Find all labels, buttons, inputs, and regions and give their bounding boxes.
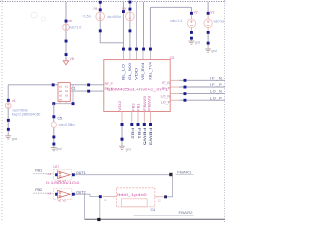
svg-text:FBW3: FBW3 (148, 96, 152, 111)
svg-text:vdc=1.4: vdc=1.4 (170, 19, 182, 23)
svg-text:V3: V3 (210, 11, 214, 15)
svg-text:C1: C1 (71, 86, 75, 90)
svg-text:IF_N: IF_N (162, 81, 170, 85)
svg-text:GL_MXi: GL_MXi (128, 63, 132, 80)
svg-text:FBW5: FBW5 (143, 128, 148, 147)
svg-text:fbb0_1p4n0: fbb0_1p4n0 (117, 193, 147, 197)
svg-text:0.1/500u/1G4: 0.1/500u/1G4 (46, 181, 79, 185)
svg-text:=1.5n: =1.5n (82, 15, 91, 19)
svg-text:FBW3: FBW3 (149, 128, 154, 147)
svg-text:n1: n1 (12, 99, 16, 103)
svg-text:IF_P: IF_P (162, 86, 170, 90)
svg-text:na: na (94, 7, 98, 11)
svg-text:FBAR1: FBAR1 (177, 171, 191, 175)
svg-text:vdc=1.0: vdc=1.0 (69, 25, 81, 29)
svg-text:LO_N: LO_N (161, 95, 171, 99)
svg-text:na: na (122, 7, 126, 11)
svg-text:FB1: FB1 (137, 103, 141, 111)
svg-text:IF_N: IF_N (210, 76, 222, 80)
svg-text:LO_P: LO_P (161, 101, 171, 105)
svg-text:gnd: gnd (56, 147, 62, 151)
svg-text:b2: b2 (65, 89, 69, 93)
svg-text:VDD: VDD (135, 67, 139, 80)
svg-text:U27: U27 (53, 165, 59, 169)
svg-text:FB1: FB1 (35, 168, 42, 172)
svg-text:FB2: FB2 (35, 188, 42, 192)
svg-text:freq=2.2856334G50: freq=2.2856334G50 (12, 112, 41, 116)
svg-text:vdc=xx: vdc=xx (214, 20, 225, 24)
svg-text:gnd: gnd (126, 147, 132, 151)
svg-text:a1: a1 (59, 85, 63, 89)
svg-text:VB: VB (70, 57, 75, 61)
svg-text:b1: b1 (65, 85, 69, 89)
svg-text:FBAR2: FBAR2 (179, 211, 193, 215)
svg-text:in1: in1 (47, 172, 51, 176)
svg-text:FBW5: FBW5 (143, 96, 147, 111)
svg-text:gnd: gnd (12, 137, 18, 141)
svg-text:in2: in2 (47, 192, 51, 196)
svg-text:IF_P: IF_P (210, 83, 222, 87)
svg-text:VB_BVd: VB_BVd (141, 63, 145, 80)
svg-text:LO_N: LO_N (210, 90, 222, 94)
svg-text:gnd: gnd (212, 49, 218, 53)
svg-text:V2: V2 (194, 11, 198, 15)
svg-text:C5: C5 (58, 117, 62, 121)
svg-text:VD2: VD2 (118, 101, 122, 111)
svg-text:vdc=0.98hv: vdc=0.98hv (59, 123, 76, 127)
svg-text:a4: a4 (59, 98, 63, 102)
svg-text:RF_P: RF_P (105, 82, 113, 86)
svg-text:121: 121 (169, 56, 175, 60)
svg-text:a2: a2 (59, 89, 63, 93)
svg-text:FB2: FB2 (132, 103, 136, 111)
svg-text:b3: b3 (65, 94, 69, 98)
svg-text:FB1: FB1 (137, 128, 142, 140)
svg-text:gnd: gnd (195, 41, 201, 45)
svg-text:FB2: FB2 (131, 128, 136, 140)
svg-text:BL_LO: BL_LO (122, 64, 126, 80)
svg-text:12: 12 (158, 198, 162, 202)
svg-text:vb: vb (68, 19, 72, 23)
svg-text:LO_P: LO_P (210, 96, 222, 100)
svg-text:C4: C4 (151, 208, 156, 212)
svg-text:w1 m1: w1 m1 (58, 198, 67, 202)
svg-text:XBL_TV4: XBL_TV4 (149, 62, 153, 80)
svg-text:SDM425uL+hvt+c_m=1: SDM425uL+hvt+c_m=1 (107, 87, 168, 91)
svg-text:dc=500u: dc=500u (108, 15, 121, 19)
svg-text:RF_N: RF_N (105, 87, 114, 91)
